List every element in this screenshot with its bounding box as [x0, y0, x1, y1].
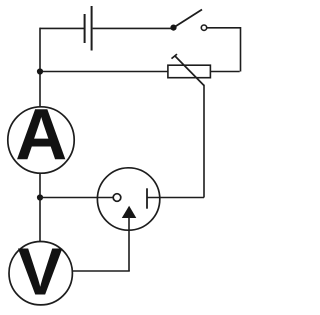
wire battery to switch	[93, 27, 172, 29]
rheostat wiper tick	[172, 54, 178, 59]
battery B1 long plate	[91, 6, 93, 51]
wire switch to right corner	[207, 27, 241, 29]
rheostat R body	[168, 65, 211, 78]
tube U1 cathode small circle	[113, 194, 121, 202]
voltmeter V1 circle	[9, 242, 72, 305]
switch S1 lever	[174, 10, 203, 28]
wire left vertical (corner to ammeter top)	[39, 28, 41, 107]
junction node 1	[37, 68, 43, 74]
switch S1 open contact	[201, 25, 206, 30]
wire rheostat right lead	[210, 71, 239, 73]
wire tube bottom vertical	[128, 217, 130, 271]
wire right vertical	[240, 27, 242, 72]
wire junction 2 to voltmeter	[39, 198, 41, 242]
wire top-left horizontal	[40, 27, 84, 29]
tube U1 envelope circle	[97, 168, 159, 230]
wire wiper vertical down	[203, 85, 205, 198]
tube U1 filament arrow	[122, 206, 137, 218]
switch S1 pivot dot	[170, 25, 176, 31]
wire anode bar to wiper	[147, 197, 204, 199]
svg-text:V: V	[18, 235, 64, 310]
junction node 2	[37, 194, 43, 200]
svg-text:A: A	[15, 94, 67, 175]
wire junction 2 to tube cathode	[40, 197, 113, 199]
wire junction to rheostat left lead	[40, 71, 168, 73]
wire ammeter to junction 2	[39, 173, 41, 198]
battery B1 short plate	[84, 14, 86, 43]
wire tube to voltmeter horizontal	[72, 270, 130, 272]
ammeter A1 circle	[8, 107, 74, 173]
tube U1 anode bar	[146, 188, 148, 208]
rheostat wiper diagonal	[175, 56, 205, 86]
